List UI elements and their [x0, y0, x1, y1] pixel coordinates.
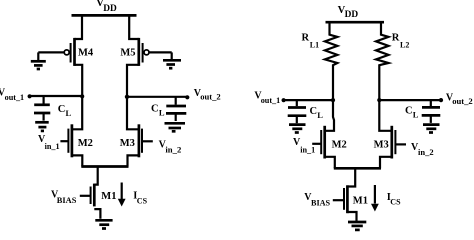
label CL (left-right) — [151, 104, 165, 118]
wire Vout1 horizontal — [30, 95, 83, 97]
wire M4 gate to ground — [38, 51, 64, 53]
svg-text:C: C — [310, 106, 318, 117]
transistor M3 channel — [138, 124, 141, 157]
label Vout1 — [0, 87, 24, 101]
svg-text:out_1: out_1 — [261, 96, 281, 105]
transistor M2 channel (right ckt) — [323, 126, 326, 159]
wire M1 source to ground (right ckt) — [347, 212, 356, 221]
svg-text:L: L — [413, 109, 419, 119]
svg-text:out_2: out_2 — [452, 96, 473, 106]
transistor M4 bubble — [64, 50, 69, 55]
node junction dot M5 drain — [125, 95, 129, 99]
wire Vout2 horizontal (right ckt) — [379, 99, 441, 101]
transistor M1 gate bar (right ckt) — [343, 188, 345, 210]
svg-text:C: C — [58, 104, 66, 115]
node VDD label (left) — [96, 0, 117, 14]
svg-text:M5: M5 — [120, 47, 135, 58]
transistor M5 gate bar — [142, 43, 144, 63]
ground (M1 source right ckt) — [348, 222, 366, 230]
svg-text:BIAS: BIAS — [57, 196, 77, 205]
transistor M3 gate bar (right ckt) — [394, 130, 396, 154]
label Vbias — [51, 190, 77, 205]
capacitor CL (left-left) — [34, 95, 50, 120]
svg-text:L: L — [317, 110, 323, 120]
label Vout2 — [194, 88, 221, 102]
ground (CL right-right) — [423, 125, 440, 133]
node Vout1 terminal dot (right ckt) — [282, 98, 286, 102]
ground (M5 gate) — [163, 52, 181, 68]
node Vout2 terminal dot (right ckt) — [439, 98, 443, 102]
svg-text:M1: M1 — [353, 195, 368, 206]
wire Vbias to M1 gate — [80, 195, 91, 197]
label CL (right-right) — [405, 105, 419, 119]
wire M5 drain to Vout2 node — [127, 65, 139, 97]
transistor M1 gate bar — [90, 187, 92, 205]
node junction dot RL2 — [377, 98, 381, 102]
transistor M2 channel — [71, 124, 74, 157]
node junction dot M4 drain — [80, 94, 84, 98]
svg-text:DD: DD — [345, 10, 359, 20]
wire M5 gate to ground — [149, 51, 172, 53]
node Vout1 terminal dot — [28, 94, 32, 98]
transistor M2 gate bar (right ckt) — [320, 130, 322, 154]
transistor M5 bubble — [144, 50, 149, 55]
wire Vin1 to M2 gate — [60, 140, 68, 142]
resistor RL1 — [325, 21, 338, 100]
label CL (right-left) — [310, 106, 324, 120]
transistor M3 channel (right ckt) — [390, 126, 393, 159]
transistor M1 channel (right ckt) — [346, 185, 349, 213]
label Vin2 (right ckt) — [411, 142, 434, 157]
wire VDD rail (right) — [326, 21, 385, 24]
label Vbias (right ckt) — [304, 192, 330, 207]
svg-text:L1: L1 — [310, 40, 319, 49]
svg-text:in_2: in_2 — [165, 144, 181, 154]
label RL1 — [302, 32, 320, 49]
label Vout2 (right ckt) — [446, 92, 473, 106]
wire M2 source to tail (right ckt) — [325, 157, 335, 169]
wire RL1 to M2 drain (right ckt) — [325, 100, 334, 131]
wire M1 source to ground — [94, 209, 100, 219]
wire M4 drain to Vout1 node — [75, 65, 83, 97]
svg-text:C: C — [405, 105, 413, 116]
svg-text:L2: L2 — [400, 40, 409, 49]
svg-text:M2: M2 — [78, 138, 93, 149]
svg-text:in_2: in_2 — [418, 147, 434, 157]
wire common source line — [81, 165, 128, 168]
wire M3 gate to Vin2 — [142, 140, 153, 142]
transistor M4 gate bar — [70, 43, 72, 63]
wire M3 gate to Vin2 (right ckt) — [395, 143, 406, 145]
wire Vout2 horizontal — [127, 96, 187, 98]
capacitor CL (right-left) — [288, 100, 307, 123]
svg-text:CS: CS — [390, 198, 401, 207]
wire Vout1 horizontal (right ckt) — [284, 99, 333, 101]
label Vin2 — [159, 140, 182, 155]
capacitor CL (right-right) — [422, 100, 441, 123]
svg-text:out_1: out_1 — [5, 93, 25, 102]
current arrow Ics (right) — [371, 185, 379, 212]
label CL (left-left) — [58, 104, 72, 118]
ground (CL left-left) — [35, 122, 49, 131]
ground (M1 source) — [95, 220, 112, 228]
capacitor CL (left-right) — [166, 97, 186, 121]
svg-text:in_1: in_1 — [300, 146, 315, 155]
label Vout1 (right ckt) — [254, 91, 280, 105]
wire Vout1 node to M2 drain — [72, 96, 82, 129]
svg-text:BIAS: BIAS — [311, 198, 331, 207]
node Vout2 terminal dot — [185, 95, 189, 99]
wire tail to M1 drain — [94, 167, 97, 185]
svg-text:CS: CS — [137, 196, 148, 205]
svg-text:R: R — [392, 32, 400, 43]
ground (CL right-left) — [289, 125, 306, 133]
svg-text:M3: M3 — [120, 138, 135, 149]
transistor M1 channel — [93, 184, 96, 207]
wire common source line (right ckt) — [334, 167, 381, 170]
current arrow Ics (left) — [118, 183, 126, 207]
transistor M5 channel — [137, 38, 140, 66]
svg-text:M1: M1 — [101, 191, 116, 202]
wire tail to M1 drain (right ckt) — [347, 168, 355, 186]
wire M2 source to tail — [72, 155, 82, 166]
wire VDD rail (left) — [72, 14, 137, 17]
wire VDD to M4 source — [75, 15, 83, 39]
transistor M4 channel — [73, 38, 76, 66]
node junction dot RL1 — [331, 98, 335, 102]
label Vin1 — [38, 134, 60, 151]
transistor M2 gate bar — [67, 129, 69, 153]
svg-text:M4: M4 — [78, 47, 94, 58]
wire RL2 to M3 drain (right ckt) — [379, 100, 392, 131]
wire Vout2 node to M3 drain — [127, 97, 139, 130]
wire Vbias to M1 gate (right ckt) — [333, 199, 344, 201]
ground (M4 gate) — [31, 52, 46, 69]
transistor M3 gate bar — [141, 129, 143, 153]
wire VDD to M5 source — [129, 15, 139, 39]
svg-text:C: C — [151, 104, 159, 115]
ground (CL left-right) — [165, 123, 186, 131]
wire Vin1 to M2 gate (right ckt) — [312, 143, 321, 145]
label RL2 — [392, 32, 410, 49]
label Ics (right) — [387, 192, 401, 207]
svg-text:R: R — [302, 32, 310, 43]
node VDD label (right) — [338, 5, 359, 20]
svg-text:L: L — [66, 108, 72, 118]
svg-text:out_2: out_2 — [200, 92, 221, 102]
svg-text:in_1: in_1 — [45, 142, 60, 151]
svg-text:DD: DD — [103, 4, 117, 14]
wire M3 source to tail (right ckt) — [380, 157, 392, 169]
svg-text:M2: M2 — [332, 140, 347, 151]
svg-text:M3: M3 — [374, 140, 389, 151]
wire M3 source to tail — [128, 155, 139, 166]
label Vin1 (right ckt) — [293, 137, 315, 155]
resistor RL2 — [376, 21, 389, 100]
label Ics (left) — [133, 191, 147, 206]
svg-text:L: L — [159, 108, 165, 118]
